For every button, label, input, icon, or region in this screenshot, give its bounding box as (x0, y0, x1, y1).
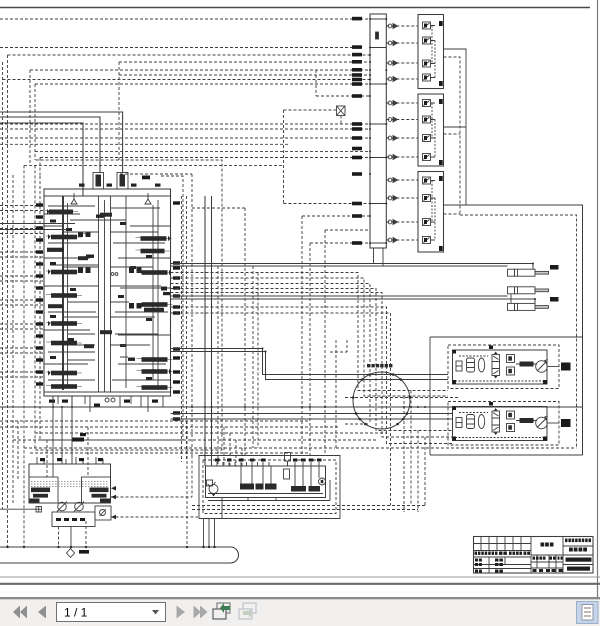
port label M8 (352, 82, 362, 86)
port label M4 (352, 60, 362, 64)
spool valve L3 (47, 248, 64, 252)
wire vertical x30 (29, 70, 31, 165)
brake valve squares B2a (507, 411, 515, 419)
corner nubs (453, 346, 548, 385)
pressure valve small at x340 (337, 106, 346, 124)
swash texture band (31, 482, 108, 487)
junction dots cylinder lines (262, 263, 537, 353)
wire pilot row y174 (120, 173, 192, 175)
accumulator A2 (467, 415, 475, 429)
counterbalance valve CB1 (492, 352, 500, 379)
small label inner3 (96, 215, 104, 218)
previous view icon (213, 603, 230, 619)
gear pump symbol (208, 482, 219, 497)
wire solid left rows (0, 224, 75, 230)
wire dashed vertical x236 (235, 440, 237, 466)
accumulator symbol on rail (376, 32, 379, 39)
wire dashed swivel row low (345, 423, 370, 425)
wire solid to cyl2 cap (171, 295, 508, 297)
spool valve R4b (144, 308, 164, 312)
small valve C1 (100, 213, 112, 217)
port label M18 (352, 241, 362, 245)
pilot reducing valve A (93, 173, 104, 190)
wire vertical x119 (118, 62, 120, 160)
wire vertical x2.5 (2, 62, 4, 509)
wire dashed cascade r1 (171, 273, 449, 391)
wire vertical x35 (34, 84, 36, 160)
manifold body (206, 466, 326, 498)
wire dashed under-strip row y512 (192, 509, 418, 511)
wire solid corner to pilot box B (0, 112, 123, 173)
spool valve L2 (46, 234, 82, 240)
wire vertical x24 (23, 165, 25, 547)
spool valve R4 (137, 302, 173, 307)
wire dashed vertical x258 (257, 273, 259, 449)
label cyl3 (550, 297, 559, 302)
wire pilot row y165 (24, 164, 284, 166)
speed spool S1 (516, 362, 537, 367)
wire dashed bottom row y448 (24, 447, 335, 449)
wire dashed pump link y517 (111, 516, 199, 518)
wire pilot row y243 (310, 242, 370, 244)
wire inner rail x67.5 (67, 203, 69, 385)
small label inner1 (86, 255, 94, 258)
wire pump delivery x62 (61, 407, 63, 464)
port label M16 (352, 202, 362, 206)
wire center drop (70, 527, 72, 548)
wire rail bottom stubs (374, 248, 384, 266)
junction dots on tank line (6, 546, 215, 548)
wire vertical x310 (309, 243, 311, 456)
internal dashed net (455, 356, 544, 381)
wire tank drops (59, 521, 87, 547)
small label inner2 (130, 266, 136, 269)
check valve CV3 (388, 61, 397, 66)
solenoid valve V1a (423, 22, 436, 29)
junction dots y407 (52, 406, 426, 408)
label tank (79, 550, 89, 554)
counterbalance valve CB2 (492, 408, 500, 435)
wire solid corridor x211.5 (211, 196, 213, 466)
check valve CV5 (388, 101, 397, 106)
port label M3 (352, 53, 362, 57)
wire pilot row y47.5 (0, 47, 352, 49)
small vertical valve inside (284, 469, 290, 479)
solenoid valve V2a (423, 100, 436, 107)
center swivel joint (352, 364, 411, 429)
wire pilot row y144 (0, 143, 290, 145)
solenoid cluster TL2 (78, 268, 91, 274)
wire extra h3 (63, 317, 158, 334)
solenoid valve V2d (423, 154, 436, 161)
wire center rail x98.5 (98, 196, 100, 392)
wire dashed vertical x411 (410, 391, 412, 506)
label near y460 (80, 433, 86, 436)
port label M17 (352, 214, 362, 218)
boom cylinder CYL1 (508, 265, 559, 276)
check valve CV10 (388, 196, 397, 201)
speed spool S2 (516, 418, 537, 423)
pilot reducing valve B (117, 173, 128, 190)
internal dashed net V1 (432, 26, 435, 78)
wire solid row to motor2 b (171, 418, 453, 420)
wire dashed cascade r7 (171, 313, 391, 506)
label MCV (142, 176, 150, 180)
wire motors bottom solid (430, 454, 583, 456)
pump edge arrows (111, 486, 116, 519)
wire inner seg1 (44, 206, 160, 220)
solenoid valve bank V2 (418, 94, 444, 166)
filter F2 (456, 418, 462, 428)
wire extra h1 (63, 232, 158, 267)
gauge port circles (111, 273, 114, 276)
regulator spool left (30, 488, 51, 503)
gauge oval O2 (478, 415, 484, 429)
top edge port labels (79, 184, 161, 187)
wire dashed vertical x181.5 (181, 196, 183, 462)
port label M12 (352, 136, 362, 140)
wire pilot row y129 (0, 128, 370, 130)
last page button (194, 606, 208, 619)
solenoid valve bank V1 (418, 15, 444, 89)
check valve CV8 (388, 155, 397, 160)
wire inner seg5 (44, 335, 171, 364)
wire inner rail x158 (157, 200, 159, 390)
travel motor block 1 (448, 345, 571, 389)
wire inner rail x126 (125, 196, 127, 388)
wire pilot row y138 (0, 137, 370, 139)
wire inner seg2 (44, 226, 171, 243)
junction dots on rails (369, 18, 371, 20)
solenoid cluster TR1 (129, 268, 142, 274)
label cyl1 (550, 265, 559, 270)
page dropdown arrow (152, 610, 159, 615)
wire solid long right L (466, 205, 583, 455)
wire vertical x245 (244, 208, 246, 456)
small valve C4 (84, 344, 94, 348)
svg-text:1 / 1: 1 / 1 (64, 606, 88, 620)
wire dashed from V1 right (444, 57, 461, 215)
brake valve squares B1b (507, 367, 515, 375)
label rear axle (561, 419, 571, 427)
spool valve L1 (45, 209, 78, 215)
internal dashed net (455, 413, 544, 438)
check valve CV11 (388, 220, 397, 225)
wire dashed cascade r3 (171, 284, 371, 425)
sidebar toggle button highlighted (577, 602, 599, 624)
solenoid cluster TR2 (129, 303, 142, 309)
port label M5 (352, 68, 362, 72)
wire stub right (548, 422, 559, 424)
wire dashed bottom row y453 (30, 452, 310, 454)
inner dashed enclosure (203, 460, 336, 514)
spool valve R1 (136, 236, 172, 242)
regulator spool right (90, 488, 111, 503)
wire pilot row y203.5 (284, 203, 371, 205)
dashed enclosure around main valve inner (40, 176, 183, 440)
first page button (13, 606, 27, 619)
wire dashed cascade r4 (171, 289, 453, 431)
wire travel subsystem border top (430, 336, 583, 338)
port label M11 (352, 127, 362, 131)
port label M13 (352, 147, 362, 151)
check valve CV2 (388, 41, 397, 46)
title grid vertical lines (531, 537, 563, 574)
label swivel (367, 364, 392, 367)
wire pilot row y75 (119, 74, 370, 76)
wire dashed feeds into pump (47, 427, 88, 477)
wire pump delivery x72 (71, 396, 73, 464)
spool valve R3 (137, 270, 173, 276)
travel motor M2 (536, 416, 548, 429)
wire solid step pair A1 (171, 349, 449, 375)
solenoid bar SB2 (256, 484, 264, 490)
check valve column stubs (386, 26, 418, 240)
right regulator body (82, 477, 111, 503)
check valve CV1 (388, 24, 397, 29)
wire dashed vertical x230 (229, 433, 231, 466)
wire dashed vertical x418 (417, 431, 419, 513)
spool valve L8 (46, 341, 82, 346)
wire solid corner x83 (0, 123, 83, 196)
wire solid long bottom (0, 406, 583, 408)
toolbar background (0, 599, 600, 626)
wire center rail x104.5 (104, 200, 106, 392)
spool valve L7 (46, 321, 82, 327)
wire inner seg4 (44, 288, 171, 330)
port ticks on top (217, 462, 319, 466)
spool valve R6 (137, 369, 173, 375)
port label M10 (352, 122, 362, 126)
wire pilot row y19 (0, 18, 370, 20)
wire solid to cyl3 top (171, 299, 536, 303)
wire pump delivery x53 (52, 396, 54, 477)
page bottom thick line (0, 583, 600, 585)
case drain square (36, 507, 42, 513)
port label M1 (352, 17, 362, 21)
small valve C2 (78, 256, 88, 260)
wire solid corridor x205 (204, 196, 206, 466)
wire dashed vertical x425 (424, 437, 426, 506)
next view icon (disabled) (239, 603, 256, 619)
spool valve R5 (137, 357, 173, 362)
port label M14 (352, 156, 362, 160)
wire strip lower (208, 480, 330, 519)
filter F1 (456, 361, 462, 371)
small label inner4 (128, 358, 135, 361)
wire dashed vertical x404 (403, 396, 405, 512)
wire dashed cascade r2 (171, 278, 449, 396)
wire travel subsystem border left (429, 337, 431, 455)
relief valve RV (207, 480, 213, 486)
main control valve block (44, 173, 171, 403)
wire inner rail x153 (152, 205, 154, 380)
wire dashed cascade r5 (171, 293, 453, 438)
spool valve L4 (46, 269, 82, 275)
small inner labels cluster (50, 220, 152, 381)
tank line stadium (0, 421, 239, 563)
wire stub right (548, 366, 559, 368)
solenoid valve V1c (423, 60, 436, 67)
corner nubs (453, 402, 548, 441)
tank symbol diamond (67, 547, 75, 558)
solenoid bar SB5 (309, 486, 321, 492)
wire dashed from V3 right (444, 213, 461, 215)
dashed enclosure around main valve left (35, 160, 222, 450)
travel motor block 2 (448, 402, 571, 446)
wire dashed vertical x242 (241, 448, 243, 466)
solenoid valve V3c (423, 219, 436, 226)
next page button (177, 606, 186, 619)
page right border (597, 0, 599, 598)
title block (474, 537, 594, 574)
internal dashed net V3 (432, 181, 435, 241)
wire rail inner ticks (370, 19, 386, 243)
brake valve squares B1a (507, 355, 515, 363)
wire motors bottom dashed (336, 447, 577, 449)
bottom port labels (49, 400, 158, 407)
wire vertical x18 (17, 421, 19, 480)
wire dashed bottom row y433 (35, 432, 387, 434)
gauge oval O1 (478, 358, 484, 372)
wire dashed corner left of swivel (330, 340, 347, 448)
wire dashed under-strip row y505.5 (192, 505, 425, 507)
solenoid valve V3b (423, 195, 436, 202)
solenoid valve V1d (423, 74, 436, 81)
pilot pump box (95, 506, 111, 520)
wire strip internal verticals (241, 466, 319, 486)
small comp right (161, 287, 170, 296)
wire pilot row y84 (35, 83, 370, 85)
solenoid valve V3a (423, 177, 436, 184)
left port stubs dashed (0, 206, 44, 378)
wire solid to cyl1 top (171, 264, 534, 270)
title texts (475, 539, 592, 573)
wire pilot row y230 (325, 229, 370, 231)
port label M7 (352, 78, 362, 82)
arm cylinder CYL2 (508, 287, 549, 294)
pump P2 (74, 502, 84, 512)
M motor circle (319, 478, 326, 485)
port label M9 (352, 94, 362, 98)
pilot control manifold (199, 453, 340, 519)
pilot manifold rail (370, 14, 386, 248)
page bottom thin line (0, 576, 600, 578)
pump lower box (52, 512, 95, 527)
outer enclosure (199, 456, 340, 519)
wire drops to tank (186, 421, 188, 547)
port label M2 (352, 45, 362, 49)
wire pilot row y208 (192, 207, 245, 209)
wire pilot row y62 (119, 61, 370, 63)
bottom port circles (105, 398, 109, 402)
port ticks top (37, 457, 103, 464)
wire dashed vertical x218 (217, 266, 219, 466)
wire cyl link (510, 294, 512, 304)
main pump assembly (0, 396, 111, 547)
wire pilot row y55 (8, 54, 371, 56)
spool valve L5 (46, 293, 82, 298)
wire vertical x192 (191, 174, 193, 456)
wire vertical x7.5 (7, 55, 9, 547)
wire vertical x302 (301, 216, 303, 456)
wire dashed bottom row y440 (13, 439, 376, 441)
inner bottom line (208, 493, 323, 495)
wire pilot row y157.5 (40, 157, 370, 159)
check valve CV7 (388, 136, 397, 141)
wire dashed swivel row (345, 397, 460, 399)
wire vertical x13 (12, 175, 14, 505)
solenoid bar SB1 (240, 484, 254, 490)
wire vertical x325 (324, 230, 326, 456)
toolbar top border (0, 597, 600, 599)
spool valve L10 (46, 384, 82, 389)
check valve CV4 (388, 77, 397, 82)
wire solid step pair A2 (171, 352, 449, 380)
wire solid from V2 right (444, 126, 467, 128)
check valve CV6 (388, 117, 397, 122)
wire inner seg6 (44, 380, 171, 392)
left regulator body (29, 477, 58, 503)
wire pilot row y216 (302, 215, 370, 217)
wire dashed vertical x224 (223, 427, 225, 466)
wire dashed from V2 right (444, 133, 461, 135)
small vertical valve above strip (285, 453, 291, 467)
solenoid bar SB3 (265, 484, 277, 490)
accumulator A1 (467, 358, 475, 372)
travel motor M1 (536, 360, 548, 373)
wire pilot row y110 (284, 109, 337, 111)
spool valve L9 (46, 370, 82, 376)
wire dashed vertical x253 (252, 266, 254, 448)
wire inner rail x63 bold (62, 196, 64, 390)
port label M15 (352, 172, 362, 176)
label front axle (561, 363, 571, 371)
wire pilot row y124 (0, 123, 370, 125)
label in lower box (56, 518, 85, 521)
wire dashed long right L (460, 215, 577, 448)
wire extra h2 (63, 286, 161, 302)
spool valve R2 (136, 249, 170, 254)
wire pilot row y96 (316, 95, 370, 97)
wire solid row to motor2 a (171, 413, 453, 415)
spool valve R7 (137, 385, 173, 390)
prev page button (38, 606, 46, 619)
solenoid valve V2c (423, 135, 436, 142)
wire inner top y196 (44, 195, 171, 197)
wire solid from V1 right (444, 49, 467, 205)
solenoid valve bank V3 (418, 172, 444, 253)
wire vertical x283.5 (283, 110, 285, 204)
internal dashed net V2 (432, 103, 435, 157)
wire vertical x186.5 (186, 196, 188, 460)
check valve CV9 (388, 178, 397, 183)
port labels on top (215, 459, 322, 462)
solenoid valve V3d (423, 237, 436, 244)
solenoid bar SB4 (291, 486, 306, 492)
wire left suction (0, 508, 36, 510)
wire center rail x110.5 (110, 196, 112, 392)
wire solid corner to pilot box A (0, 117, 100, 173)
bottom port stubs (53, 396, 163, 412)
relief valve RR (145, 193, 151, 204)
bucket cylinder CYL3 (508, 294, 559, 311)
wire vertical x316 (315, 70, 317, 96)
top port labels (40, 458, 103, 461)
page top border (0, 7, 590, 9)
left port labels (36, 203, 43, 385)
wire pilot row y151 (35, 150, 370, 152)
